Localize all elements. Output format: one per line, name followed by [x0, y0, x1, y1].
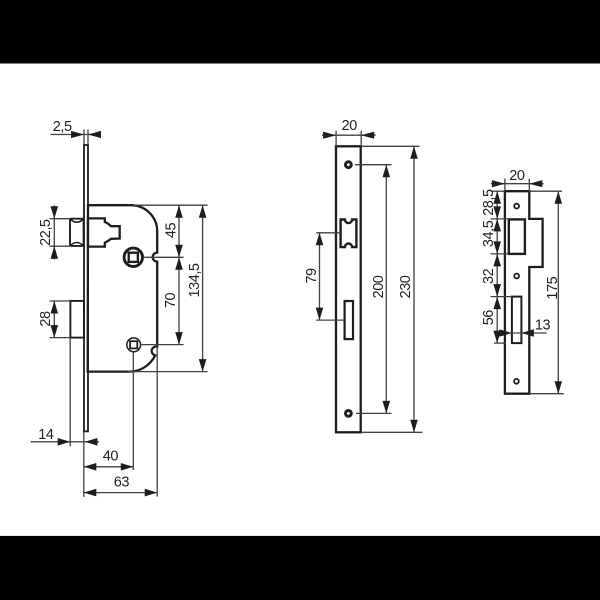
svg-text:134,5: 134,5 [187, 263, 203, 297]
dimension 13 [503, 332, 547, 334]
dimension 2,5 line [51, 134, 102, 136]
svg-text:34,5: 34,5 [481, 220, 497, 247]
svg-text:20: 20 [509, 168, 525, 184]
extension lines above [335, 131, 337, 147]
svg-text:70: 70 [163, 293, 179, 309]
top black band [0, 0, 600, 64]
dimension 28 [50, 300, 71, 302]
dimension 32 arrows [493, 254, 501, 267]
MIDDLE VIEW: faceplate front [304, 118, 423, 432]
dimension 56 arrows [493, 297, 501, 310]
dimension 134,5 [202, 205, 204, 371]
dimension 230 [413, 146, 415, 432]
plate top/bottom extensions right [529, 190, 562, 192]
lower hole [127, 338, 141, 352]
faceplate front plate [336, 146, 361, 432]
svg-text:28: 28 [38, 311, 54, 327]
svg-text:28,5: 28,5 [481, 189, 497, 216]
strike plate outline with tab [505, 191, 543, 394]
dimension 40 [84, 466, 134, 468]
svg-text:56: 56 [481, 310, 497, 326]
screw holes [514, 204, 519, 209]
svg-text:20: 20 [342, 118, 358, 134]
svg-text:175: 175 [545, 276, 561, 299]
body bottom edge extension [128, 371, 208, 373]
body top edge extension [133, 204, 208, 206]
dimension 20 [491, 183, 544, 185]
dimension 200 [385, 165, 387, 414]
svg-text:79: 79 [304, 268, 320, 284]
dimension 175 [557, 191, 559, 394]
stacked dims line [496, 191, 498, 343]
dimension 79 [316, 232, 340, 234]
extension lines above faceplate [83, 130, 85, 147]
svg-text:2,5: 2,5 [53, 119, 72, 135]
screw hole top [346, 162, 352, 168]
bolt cutout [345, 301, 353, 339]
svg-text:22,5: 22,5 [38, 219, 54, 246]
stacked dims extension lines [491, 190, 505, 192]
dimension 45 / 70 line [178, 205, 180, 344]
svg-text:200: 200 [371, 275, 387, 298]
svg-text:40: 40 [103, 449, 119, 465]
deadbolt head [70, 301, 84, 338]
latch cutout [341, 220, 357, 248]
svg-text:13: 13 [535, 318, 551, 334]
svg-text:63: 63 [114, 474, 130, 490]
lock body outline [88, 205, 158, 371]
svg-text:14: 14 [38, 427, 54, 443]
dimension 63 [84, 492, 157, 494]
dimension 14 [31, 441, 100, 443]
dimension 28,5 arrows [493, 191, 501, 204]
screw hole leaders [355, 164, 392, 166]
svg-text:32: 32 [481, 268, 497, 284]
svg-text:45: 45 [164, 223, 180, 239]
extension faceplate down [83, 432, 85, 497]
faceplate (side) [84, 145, 88, 431]
RIGHT VIEW: strike plate [481, 168, 564, 394]
extension from bolt to 14 dim [69, 338, 71, 447]
latch box [509, 219, 525, 254]
latch bolt behind plate [88, 218, 120, 246]
spindle leader [144, 256, 184, 258]
dimension 2,5 arrows [71, 131, 84, 138]
plate top/bottom edge extensions [361, 145, 419, 147]
latch head bevel arcs [71, 219, 83, 222]
lower hole extension down [132, 353, 134, 471]
LEFT VIEW: lock body side view [31, 119, 208, 497]
dimension 22,5 [50, 218, 71, 220]
spindle follower [124, 248, 142, 266]
lower hole leader [142, 344, 184, 346]
bottom black band [0, 536, 600, 600]
screw hole bottom [346, 411, 352, 417]
svg-text:230: 230 [398, 275, 414, 298]
extension body right edge down [156, 346, 158, 497]
dimension 34,5 arrows [493, 219, 501, 232]
bolt box [512, 297, 522, 344]
dimension 20 [322, 134, 376, 136]
latch head [70, 219, 84, 246]
extension lines above [504, 179, 506, 192]
